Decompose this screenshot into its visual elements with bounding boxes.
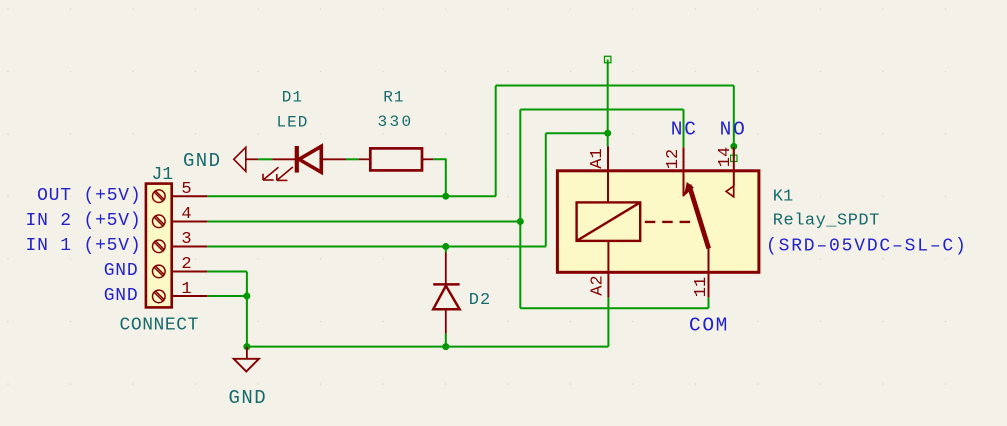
wire D2 top segment (445, 247, 447, 253)
wire pin4 IN2 horizontal (207, 221, 520, 223)
K1 pin A2 (607, 241, 609, 298)
wire COM riser to pin 11 (708, 297, 710, 308)
junction IN2 on NC-COM wire (517, 218, 524, 225)
svg-text:COM: COM (689, 314, 729, 336)
junction R1 to OUT wire (442, 193, 449, 200)
svg-text:330: 330 (377, 113, 413, 131)
connector J1 screw terminal pin 3 (153, 240, 166, 253)
connector J1 body (146, 184, 172, 308)
wire IN1 to A1 horizontal (546, 132, 608, 134)
svg-text:1: 1 (181, 280, 191, 299)
wire IN1 vertical riser (545, 133, 547, 246)
K1 coil (577, 202, 641, 241)
relay K1 body (557, 171, 759, 272)
power symbol GND bottom (234, 347, 259, 372)
connector J1 screw terminal pin 4 (153, 215, 166, 228)
svg-text:11: 11 (692, 277, 711, 297)
svg-text:12: 12 (664, 149, 683, 169)
svg-text:NO: NO (720, 118, 747, 140)
wire A2 riser (607, 297, 609, 346)
wire pin2 GND horizontal (207, 271, 247, 273)
K1 pin 12 (683, 147, 685, 196)
wire NO drop to pin 14 (733, 86, 735, 158)
D2 cathode bar (433, 283, 459, 286)
svg-text:NC: NC (671, 118, 698, 140)
K1 coil diagonal (577, 202, 641, 241)
wire NC drop to pin 12 (683, 110, 685, 148)
D1 triangle (299, 146, 321, 172)
wire LED left segment (258, 158, 272, 160)
D1 light arrow 2 (277, 167, 293, 180)
D1 cathode bar (295, 146, 299, 173)
wire GND bottom horizontal (247, 346, 609, 348)
svg-text:3: 3 (181, 230, 191, 249)
dangling wire end square pin14 (731, 155, 737, 161)
wire LED to R1 segment (346, 158, 359, 160)
D1 light arrow 1 (263, 167, 279, 180)
K1 armature switch (684, 182, 694, 196)
wire OUT net vertical riser (495, 86, 497, 197)
pin 5 stub (172, 195, 208, 197)
svg-text:K1: K1 (773, 188, 793, 207)
svg-text:J1: J1 (152, 165, 174, 185)
svg-text:D1: D1 (282, 88, 303, 106)
junction NO pin14 (730, 143, 737, 150)
svg-text:LED: LED (276, 113, 308, 131)
pin 4 stub (172, 221, 208, 223)
svg-text:GND: GND (104, 261, 139, 281)
LED D1 (263, 146, 346, 180)
resistor R1 (359, 148, 434, 170)
junction A1 (604, 130, 611, 137)
wire pin1 GND horizontal (207, 295, 247, 297)
diode D2 (433, 252, 459, 333)
R1 body (370, 148, 422, 170)
connector J1 screw terminal pin 1 (153, 290, 166, 303)
svg-text:4: 4 (181, 205, 191, 224)
svg-text:(SRD–05VDC–SL–C): (SRD–05VDC–SL–C) (766, 237, 968, 257)
wire GND vertical (246, 272, 248, 347)
svg-text:5: 5 (181, 180, 191, 199)
svg-text:IN 2 (+5V): IN 2 (+5V) (25, 211, 141, 231)
svg-text:OUT (+5V): OUT (+5V) (37, 186, 141, 206)
pin 2 stub (172, 271, 208, 273)
D1 right pin (323, 158, 346, 160)
dangling wire end square top (605, 56, 611, 62)
R1 right pin (422, 158, 433, 160)
connector J1 screw terminal pin 2 (153, 265, 166, 278)
svg-text:D2: D2 (469, 291, 491, 310)
pin 3 stub (172, 246, 208, 248)
svg-text:14: 14 (716, 147, 735, 167)
wire R1 right corner (433, 159, 446, 196)
svg-text:Relay_SPDT: Relay_SPDT (773, 212, 880, 231)
K1 pin 14 (733, 147, 735, 186)
wire pin3 IN1 horizontal (207, 246, 546, 248)
svg-text:A2: A2 (589, 275, 608, 295)
K1 NO contact triangle (726, 186, 734, 197)
power symbol GND arrow (left of LED) (234, 147, 246, 171)
svg-text:IN 1 (+5V): IN 1 (+5V) (25, 236, 141, 256)
svg-text:2: 2 (181, 255, 191, 274)
K1 pin A1 (607, 146, 609, 202)
wire COM horizontal (520, 307, 708, 309)
svg-text:GND: GND (229, 387, 268, 409)
R1 left pin (359, 158, 371, 160)
wire A1 vertical with dangling end (607, 60, 609, 147)
junction GND corner (243, 343, 250, 350)
wire pin5 OUT net horizontal (207, 195, 495, 197)
wire NC-COM vertical (519, 110, 521, 309)
svg-text:GND: GND (104, 286, 139, 306)
svg-text:CONNECT: CONNECT (120, 316, 199, 336)
connector J1 screw terminal pin 5 (153, 190, 166, 203)
D1 left pin (272, 158, 295, 160)
D2 top pin (445, 252, 447, 284)
wire OUT net top horizontal (496, 85, 734, 87)
D2 bottom pin (445, 310, 447, 333)
D2 triangle (433, 286, 459, 309)
svg-text:A1: A1 (588, 148, 607, 168)
wire D2 bottom segment (445, 334, 447, 347)
svg-text:R1: R1 (383, 88, 404, 106)
junction D2 bottom on GND wire (442, 343, 449, 350)
pin 1 stub (172, 295, 208, 297)
K1 pin 11 (708, 248, 710, 298)
svg-text:GND: GND (183, 150, 221, 172)
junction D2 top on IN1 wire (442, 243, 449, 250)
junction pin1-pin2 GND (243, 293, 250, 300)
K1 dashed link (645, 221, 695, 223)
wire NC horizontal (520, 109, 683, 111)
